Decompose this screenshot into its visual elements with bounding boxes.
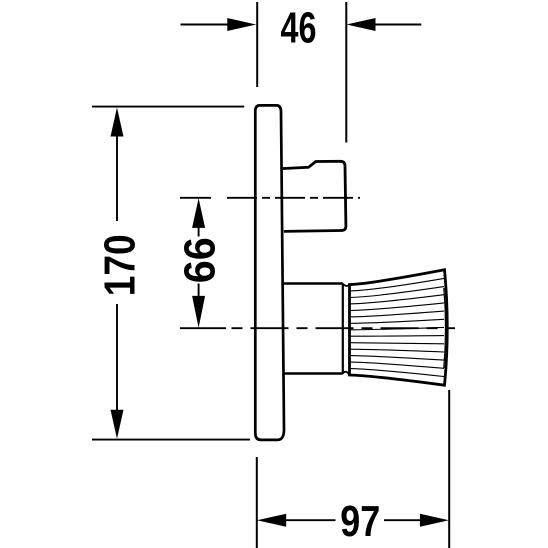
dim 170 arrow up [111, 108, 124, 137]
knob contour line 12 [350, 362, 445, 368]
knob stem top [284, 282, 343, 285]
knob contour line 8 [350, 335, 445, 338]
svg-text:170: 170 [95, 234, 144, 296]
dim 46 extension line left [256, 2, 258, 87]
knob contour line 3 [350, 295, 445, 304]
knob contour line 10 [350, 349, 445, 352]
dim 97 line left tail [284, 519, 336, 521]
knob collar bottom [343, 372, 350, 375]
svg-text:46: 46 [281, 3, 317, 52]
knob contour line 9 [350, 343, 445, 344]
dim 66 arrow up [192, 198, 205, 228]
dim 170 line upper [116, 134, 118, 221]
dim 46 line left tail [181, 24, 231, 26]
svg-text:66: 66 [176, 237, 225, 283]
knob contour line 2 [350, 287, 445, 298]
dim 97 extension line right [448, 390, 450, 548]
dim 170 line lower [116, 304, 118, 412]
handle (diverter) outline [281, 161, 346, 231]
wall plate outline [255, 105, 284, 440]
dim 66 extension line bottom [180, 327, 226, 329]
dim 66 extension line top [180, 197, 211, 199]
dim 170 arrow down [111, 410, 124, 439]
knob contour line 1 [350, 278, 445, 291]
label 170 [95, 234, 144, 296]
knob stem bottom [284, 372, 343, 375]
knob contour line 5 [350, 311, 445, 317]
dim 46 extension line right [345, 2, 347, 143]
dim 170 extension line top [92, 106, 244, 108]
dim 66 arrow down [192, 296, 205, 328]
centerline handle axis [227, 197, 360, 199]
dim 170 extension line bottom [92, 439, 250, 441]
dim 97 extension line left [256, 457, 258, 548]
knob collar top [343, 284, 350, 286]
knob front rim arc [444, 288, 446, 368]
knob contour line 11 [350, 356, 445, 361]
knob contour line 4 [350, 303, 445, 311]
dim 97 arrow left [257, 514, 286, 527]
svg-text:97: 97 [340, 497, 380, 546]
centerline knob axis [232, 327, 456, 329]
knob contour line 6 [350, 319, 445, 323]
label 66 [176, 237, 225, 283]
dim 97 arrow right [420, 514, 449, 527]
knob contour line 7 [350, 327, 445, 329]
knob silhouette [350, 270, 448, 385]
dim 46 arrow left [227, 18, 256, 31]
knob contour line 13 [350, 369, 445, 377]
dim 66 line lower [198, 284, 200, 298]
dim 46 arrow right [347, 18, 376, 31]
dim 66 line upper [198, 226, 200, 237]
knob stem right edge [342, 284, 344, 374]
dim 46 line right tail [373, 24, 421, 26]
dim 97 line right tail [384, 519, 422, 521]
